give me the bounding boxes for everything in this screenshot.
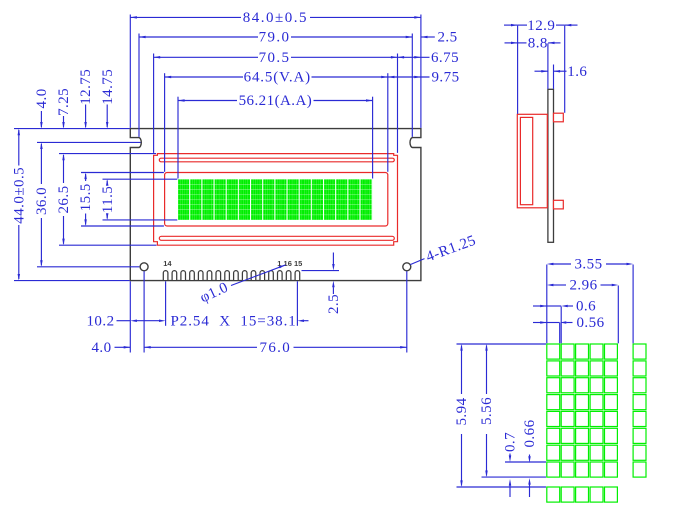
pin header row, 16 pins	[163, 271, 168, 280]
side view bottom peg	[554, 200, 564, 209]
svg-text:5.56: 5.56	[479, 397, 495, 425]
svg-text:8.8: 8.8	[528, 36, 548, 52]
svg-text:84.0±0.5: 84.0±0.5	[243, 10, 308, 26]
bezel bottom slot	[159, 236, 394, 240]
dim 9.75	[388, 76, 430, 78]
dim 4.0 (bottom)	[115, 346, 131, 348]
svg-text:P2.54 X 15=38.1: P2.54 X 15=38.1	[170, 313, 296, 329]
mounting hole left	[140, 263, 148, 271]
svg-text:79.0: 79.0	[259, 30, 291, 46]
dim 0.6	[533, 305, 547, 307]
bezel top slot	[159, 158, 394, 162]
dim 2.96	[553, 284, 566, 286]
active area: 16 character blocks	[178, 179, 373, 220]
svg-text:14.75: 14.75	[100, 69, 116, 105]
ext line pin top	[302, 270, 340, 272]
svg-text:1.6: 1.6	[567, 64, 587, 80]
dim 3.55	[553, 263, 571, 265]
svg-text:76.0: 76.0	[259, 340, 291, 356]
svg-text:9.75: 9.75	[431, 70, 459, 86]
svg-text:26.5: 26.5	[56, 185, 72, 213]
leader φ1.0	[231, 265, 286, 286]
dim 79.0	[139, 36, 258, 38]
mounting hole right	[403, 263, 411, 271]
dim 14.75	[106, 105, 108, 128]
svg-text:0.7: 0.7	[503, 432, 519, 452]
svg-text:12.9: 12.9	[527, 18, 555, 34]
svg-text:2.96: 2.96	[569, 278, 597, 294]
svg-text:2.5: 2.5	[326, 294, 342, 314]
dim 0.56	[533, 322, 547, 324]
extension lines below front view	[129, 281, 131, 352]
dim 5.56	[486, 346, 488, 395]
svg-text:2.5: 2.5	[437, 30, 457, 46]
side view PCB bar	[548, 89, 554, 242]
svg-text:70.5: 70.5	[259, 50, 291, 66]
detail ext lines	[546, 265, 548, 344]
dim 11.5	[106, 181, 108, 184]
dot matrix 5x8 pixel grid	[547, 344, 560, 359]
dim 8.8	[505, 42, 518, 44]
svg-text:14: 14	[163, 259, 172, 268]
dim 10.2	[117, 320, 131, 322]
bezel outer frame with stepped corners	[154, 154, 398, 246]
dim 12.9	[504, 24, 518, 26]
dim 56.21(A.A)	[178, 100, 237, 102]
dim 64.5(V.A)	[165, 76, 243, 78]
dim 84.0±0.5	[130, 16, 241, 18]
svg-text:12.75: 12.75	[78, 69, 94, 105]
dim 15.5	[85, 174, 87, 181]
extension lines left of front view	[14, 128, 130, 130]
dim 6.75	[398, 56, 430, 58]
svg-text:5.94: 5.94	[454, 397, 470, 425]
svg-text:4.0: 4.0	[91, 340, 111, 356]
dim 5.94	[461, 346, 463, 395]
svg-text:44.0±0.5: 44.0±0.5	[11, 167, 27, 224]
svg-text:0.56: 0.56	[576, 315, 604, 331]
svg-text:10.2: 10.2	[86, 313, 114, 329]
adjacent pixel column	[633, 344, 646, 359]
svg-text:7.25: 7.25	[56, 88, 72, 116]
svg-text:15.5: 15.5	[78, 183, 94, 211]
dim 70.5	[154, 56, 258, 58]
side view bezel outer	[517, 114, 547, 208]
display window V.A.	[165, 173, 388, 227]
leader 4-R1.25	[410, 259, 424, 265]
svg-text:6.75: 6.75	[431, 50, 459, 66]
side view top peg	[554, 113, 564, 122]
dim 0.66	[529, 455, 531, 457]
dim 7.25	[63, 116, 65, 127]
dim 12.75	[85, 105, 87, 128]
adjacent pixel row	[547, 487, 560, 502]
svg-text:0.66: 0.66	[522, 419, 538, 447]
PCB outline front view with mounting slots	[130, 129, 421, 281]
dim 36.0	[40, 144, 42, 184]
svg-text:56.21(A.A): 56.21(A.A)	[239, 93, 313, 109]
svg-text:64.5(V.A): 64.5(V.A)	[244, 70, 311, 86]
dim 2.5 (right)	[421, 36, 435, 38]
svg-text:0.6: 0.6	[576, 299, 596, 315]
svg-text:36.0: 36.0	[34, 187, 50, 215]
extension lines above front view	[129, 15, 131, 128]
dim P2.54 X 15=38.1 tail	[304, 320, 309, 322]
svg-text:4.0: 4.0	[34, 88, 50, 108]
dim 1.6	[535, 70, 548, 72]
dim 44.0±0.5	[18, 130, 20, 166]
dim 2.5 (pin, vertical)	[332, 253, 334, 265]
svg-text:11.5: 11.5	[100, 186, 116, 214]
svg-text:3.55: 3.55	[574, 257, 602, 273]
dim 0.7	[509, 454, 511, 456]
dim 4.0 (top)	[40, 111, 42, 127]
side ext lines	[517, 26, 519, 114]
dim 76.0	[144, 346, 257, 348]
dim 26.5	[63, 155, 65, 183]
side view bezel inner line / LCD glass	[520, 117, 532, 204]
